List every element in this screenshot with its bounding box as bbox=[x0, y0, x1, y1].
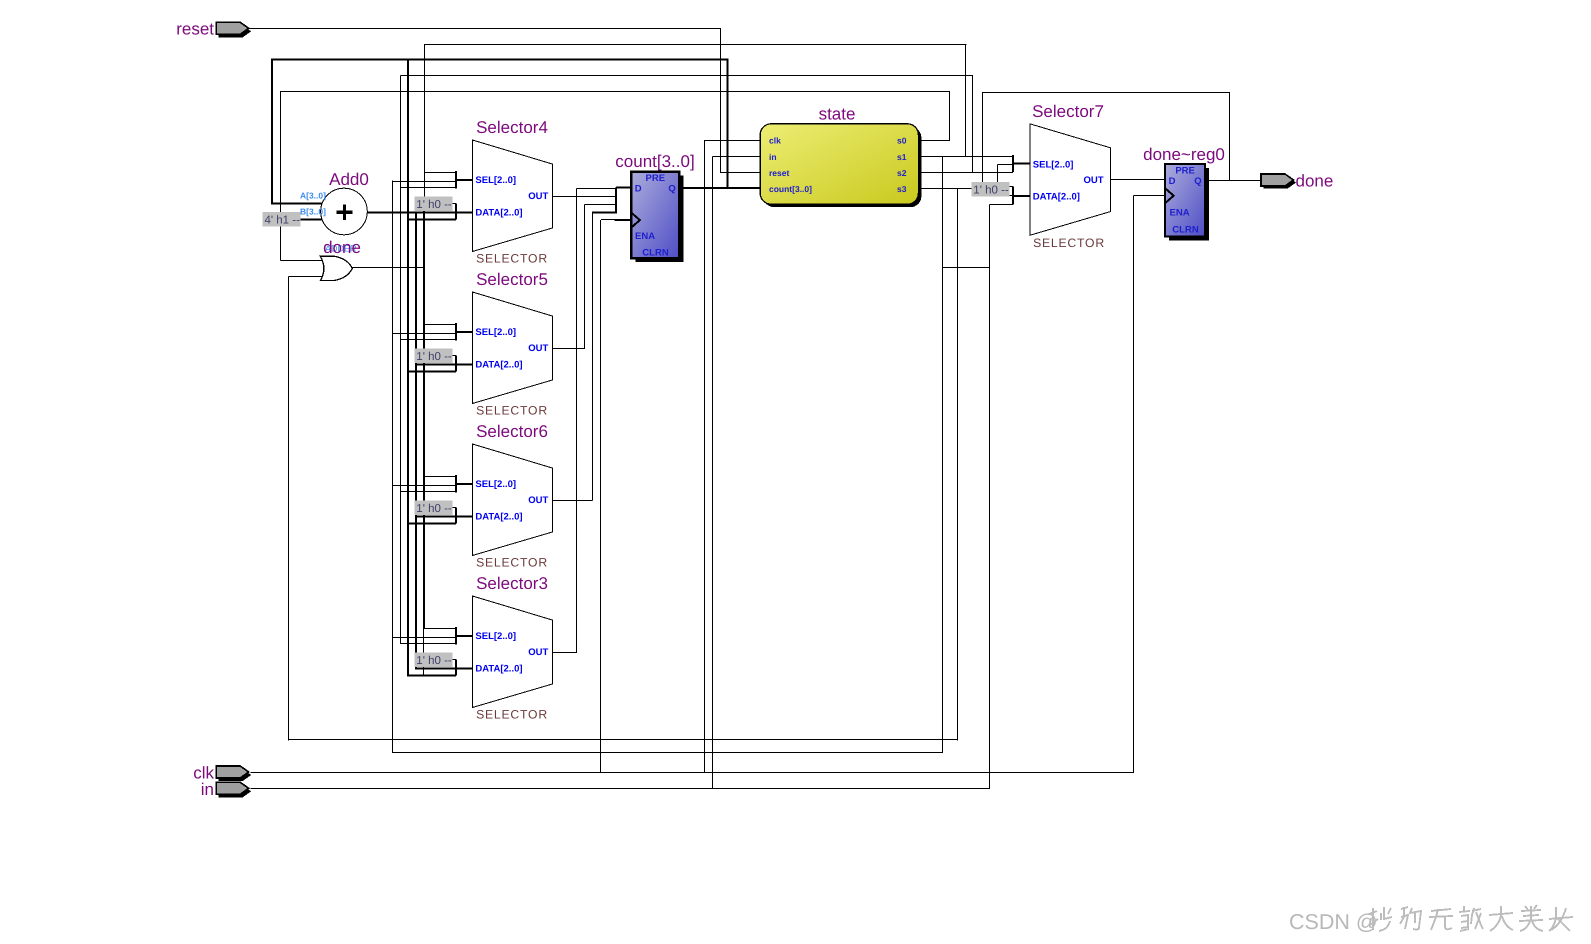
constant label 1'h0 at Selector4 DATA bbox=[414, 197, 452, 212]
svg-text:B[3..0]: B[3..0] bbox=[300, 207, 326, 217]
svg-text:SELECTOR: SELECTOR bbox=[476, 556, 548, 570]
constant label 1'h0 at Selector5 DATA bbox=[414, 349, 452, 364]
wire selector selA bit y628 bbox=[424, 628, 456, 630]
svg-text:1' h0 --: 1' h0 -- bbox=[973, 185, 1009, 197]
svg-text:SELECTOR: SELECTOR bbox=[1033, 236, 1105, 250]
wire selector SEL bundle (base 140): stub x456.1, sel pin wire bbox=[456, 171, 472, 189]
flip-flop count[3..0] bbox=[615, 152, 694, 262]
wire selector data-bottom bit y219.3 (thick) bbox=[408, 218, 456, 220]
svg-text:Selector7: Selector7 bbox=[1032, 102, 1104, 121]
wire Selector4 OUT to D bundle bbox=[552, 196, 616, 198]
wire s1 top rail y44 from x424.7 to riser x965.8 bbox=[424, 44, 966, 157]
wire s1 riser x424.7 down to Selector3 selA bbox=[424, 44, 426, 628]
wire count Q to state count input (thick) bbox=[682, 187, 761, 189]
watermark CSDN bbox=[1289, 905, 1573, 934]
constant label 1'h0 at Selector7 DATA bbox=[971, 182, 1009, 197]
mux Selector3 bbox=[472, 574, 552, 722]
wire selector selB bit y333 bbox=[392, 333, 456, 335]
wire selector data-bottom bit y675.3 (thick) bbox=[408, 674, 456, 676]
svg-text:Selector5: Selector5 bbox=[476, 270, 548, 289]
wire selector selA bit y476 bbox=[424, 476, 456, 478]
wire s0 top rail y91.5 from x280.6 to riser x949.7 bbox=[280, 92, 950, 261]
wire reset net: pin to state reset (top rail y28.5, riser x720) bbox=[250, 28, 721, 173]
mux Selector4 bbox=[472, 118, 552, 266]
adder Add0 bbox=[300, 170, 369, 254]
svg-text:CLRN: CLRN bbox=[1172, 225, 1199, 236]
wire count bus rail y59.4 (thick) x271.8..727.6 bbox=[271, 59, 729, 204]
svg-text:Q: Q bbox=[668, 184, 675, 195]
svg-text:DATA[2..0]: DATA[2..0] bbox=[475, 208, 522, 219]
svg-text:Selector3: Selector3 bbox=[476, 574, 548, 593]
svg-text:ENA: ENA bbox=[635, 231, 655, 242]
svg-text:1' h0 --: 1' h0 -- bbox=[416, 655, 452, 667]
svg-text:A[3..0]: A[3..0] bbox=[300, 191, 326, 201]
constant label 4'h1 at Add0 B input bbox=[263, 212, 301, 227]
wire Selector7 DATA bundle stub + pin wire bbox=[1013, 186, 1030, 204]
svg-text:SEL[2..0]: SEL[2..0] bbox=[475, 631, 516, 642]
svg-text:SEL[2..0]: SEL[2..0] bbox=[475, 175, 516, 186]
svg-text:done~reg0: done~reg0 bbox=[1143, 145, 1225, 164]
wire s2 riser x400.9 down to Selector3 selC bbox=[400, 76, 402, 645]
svg-text:1' h0 --: 1' h0 -- bbox=[416, 503, 452, 515]
svg-text:reset: reset bbox=[176, 20, 214, 39]
wire clk rail y772.2 from pin to x1133.4 bbox=[251, 772, 1134, 774]
wire selector data-top bit y355.4 bbox=[423, 355, 456, 357]
wire done-net vertical x423.3 (OR output distribution) bbox=[423, 203, 425, 675]
svg-text:OUT: OUT bbox=[528, 191, 548, 202]
wire OR top input from s0 bbox=[281, 260, 322, 262]
svg-text:SELECTOR: SELECTOR bbox=[476, 708, 548, 722]
svg-text:OUT: OUT bbox=[528, 343, 548, 354]
svg-text:SEL[2..0]: SEL[2..0] bbox=[1033, 159, 1074, 170]
wire count distribution x408.2 (thick) bbox=[407, 59, 409, 676]
wire Selector7 sel mid bit y164.6 bbox=[997, 164, 1013, 166]
svg-text:OUT: OUT bbox=[1083, 175, 1103, 186]
wire Add0 B input from constant 4'h1 bbox=[299, 219, 323, 221]
svg-text:CLRN: CLRN bbox=[642, 248, 669, 259]
wire s1 drop x942.2 to rail y752.4 bbox=[942, 156, 944, 753]
svg-text:DATA[2..0]: DATA[2..0] bbox=[475, 360, 522, 371]
wire OR bottom input from bottom rail x288.9 bbox=[288, 277, 321, 741]
svg-text:PRE: PRE bbox=[1175, 165, 1195, 176]
input pin in bbox=[201, 780, 251, 799]
wire in riser x712.5 to state in bbox=[713, 156, 761, 789]
wire selector selC bit y491.7 bbox=[400, 491, 456, 493]
svg-text:Q: Q bbox=[1194, 176, 1201, 187]
flip-flop done~reg0 bbox=[1143, 145, 1225, 240]
svg-text:OUT: OUT bbox=[528, 647, 548, 658]
wire in riser x989.3 to Selector7 data-bottom bbox=[989, 204, 991, 789]
wire selector data-top bit y203.4 bbox=[423, 203, 456, 205]
wire state reset input wire bbox=[720, 172, 760, 174]
wire Add0 A input (thick) from bus riser bbox=[272, 203, 323, 205]
wire selector selC bit y339.7 bbox=[400, 339, 456, 341]
wire Add0 sum distribution x415.9 (thick) bbox=[415, 211, 417, 669]
wire s0 from state to riser bbox=[918, 140, 950, 142]
svg-text:in: in bbox=[201, 780, 214, 799]
svg-text:done: done bbox=[1296, 172, 1334, 191]
svg-text:count[3..0]: count[3..0] bbox=[769, 184, 812, 194]
wire selector selA bit y172 bbox=[424, 172, 456, 174]
wire selector data-top bit y659.4 bbox=[423, 659, 456, 661]
wire Add0 OUT (thick) to Selector4 DATA bbox=[367, 211, 473, 213]
svg-text:DATA[2..0]: DATA[2..0] bbox=[475, 512, 522, 523]
svg-text:s1: s1 bbox=[897, 152, 907, 162]
wire rail y752.4 from x392.3 to x942.2 bbox=[392, 752, 943, 754]
wire jog y267.8 from x942.2 to x989.3 bbox=[942, 267, 990, 269]
wire selector selC bit y643.7 bbox=[400, 643, 456, 645]
wire s3 drop x957.2 to rail y739.9 bbox=[957, 189, 959, 741]
mux Selector7 bbox=[1030, 102, 1111, 250]
svg-text:Selector4: Selector4 bbox=[476, 118, 548, 137]
wire selector data-bottom bit y523.3 (thick) bbox=[408, 522, 456, 524]
wire selector SEL bundle (base 444): stub x456.1, sel pin wire bbox=[456, 475, 472, 493]
wire selector SEL bundle (base 596): stub x456.1, sel pin wire bbox=[456, 627, 472, 645]
wire selector selC bit y187.7 bbox=[400, 187, 456, 189]
svg-text:OUT: OUT bbox=[528, 495, 548, 506]
wire Selector6 OUT via x592.2 bbox=[552, 212, 616, 500]
svg-text:DATA[2..0]: DATA[2..0] bbox=[475, 664, 522, 675]
output pin done bbox=[1261, 172, 1333, 191]
wire selector DATA bundle (base 140): stub x456.1 bbox=[455, 203, 457, 219]
wire selector selB bit y181 bbox=[392, 181, 456, 183]
wire s2 from state to Selector7 SEL bundle bbox=[918, 172, 1013, 174]
wire selector selB bit y637 bbox=[392, 637, 456, 639]
constant label 1'h0 at Selector6 DATA bbox=[414, 501, 452, 516]
svg-text:D: D bbox=[1169, 176, 1176, 187]
wire s1 from state to Selector7 SEL bundle bbox=[918, 156, 1013, 158]
svg-text:s2: s2 bbox=[897, 168, 907, 178]
constant label 1'h0 at Selector3 DATA bbox=[414, 653, 452, 668]
wire selector selA bit y324 bbox=[424, 324, 456, 326]
svg-text:1' h0 --: 1' h0 -- bbox=[416, 199, 452, 211]
svg-text:SEL[2..0]: SEL[2..0] bbox=[475, 327, 516, 338]
wire count clock from clk rail via x600.8 bbox=[601, 220, 633, 773]
svg-text:Add0: Add0 bbox=[329, 170, 369, 189]
svg-text:DATA[2..0]: DATA[2..0] bbox=[1033, 191, 1080, 202]
wire OR output to vertical x423.2 bbox=[352, 267, 423, 269]
wire selector DATA pin wire y364.3 (thick) bbox=[416, 363, 473, 365]
wire Selector7 data-mid constant stub bbox=[1004, 195, 1013, 197]
svg-text:state: state bbox=[819, 105, 856, 124]
svg-text:ENA: ENA bbox=[1170, 208, 1190, 219]
wire selector data-bottom bit y371.3 (thick) bbox=[408, 370, 456, 372]
mux Selector6 bbox=[472, 422, 552, 570]
wire selector DATA bundle (base 292): stub x456.1 bbox=[455, 355, 457, 371]
wire selector DATA bundle (base 444): stub x456.1 bbox=[455, 507, 457, 523]
wire s3 from state to x997.4 bbox=[918, 188, 998, 190]
wire selector data-top bit y507.4 bbox=[423, 507, 456, 509]
wire Selector7 data-bottom bit y204.3 (in) bbox=[989, 204, 1013, 206]
wire s3 riser x392.3 (from bottom rail) up to Selector4 selB bbox=[392, 181, 394, 753]
wire clk riser x704.8 to state clk bbox=[705, 140, 761, 773]
svg-text:count[3..0]: count[3..0] bbox=[615, 152, 694, 171]
wire selector SEL bundle (base 292): stub x456.1, sel pin wire bbox=[456, 323, 472, 341]
wire Selector3 OUT via x576.5 bbox=[552, 188, 616, 652]
state machine box state bbox=[760, 105, 921, 208]
wire count D bundle stub + D pin wire (thick) bbox=[616, 188, 632, 214]
wire done feedback top rail y92.1 x982.4..1229.4 bbox=[982, 92, 1230, 187]
svg-text:SEL[2..0]: SEL[2..0] bbox=[475, 479, 516, 490]
wire Selector7 data-top bit y186.3 (done feedback) bbox=[982, 186, 1013, 188]
wire selector selB bit y485 bbox=[392, 485, 456, 487]
wire in rail y788.4 from pin to x989.3 bbox=[251, 788, 990, 790]
svg-text:CSDN @: CSDN @ bbox=[1289, 910, 1378, 934]
wire rail y739.9 from x288.9 to x957.2 (OR feedback) bbox=[288, 739, 957, 741]
svg-text:done: done bbox=[323, 238, 361, 257]
svg-text:Selector6: Selector6 bbox=[476, 422, 548, 441]
wire selector DATA pin wire y668.3 (thick) bbox=[416, 667, 473, 669]
wire SEL7 mid-bit riser x997.4 bbox=[997, 165, 999, 189]
input pin clk bbox=[193, 764, 251, 783]
svg-text:s3: s3 bbox=[897, 184, 907, 194]
or-gate done bbox=[320, 238, 361, 281]
wire done~reg0 clock riser x1133.4 bbox=[1133, 196, 1165, 773]
mux Selector5 bbox=[472, 270, 552, 418]
svg-text:1' h0 --: 1' h0 -- bbox=[416, 351, 452, 363]
svg-text:SELECTOR: SELECTOR bbox=[476, 252, 548, 266]
svg-text:reset: reset bbox=[769, 168, 789, 178]
input pin reset bbox=[176, 20, 251, 39]
wire done~reg0 Q to done pin bbox=[1205, 180, 1261, 182]
wire Selector5 OUT via x584.3 bbox=[552, 205, 616, 349]
svg-text:D: D bbox=[635, 184, 642, 195]
wire selector DATA pin wire y516.3 (thick) bbox=[416, 515, 473, 517]
wire Selector7 SEL bundle stub + pin wire bbox=[1013, 155, 1030, 172]
svg-text:4' h1 --: 4' h1 -- bbox=[265, 215, 301, 227]
wire s2 top rail y75.6 from x400.9 to riser x972.5 bbox=[400, 76, 973, 174]
svg-text:s0: s0 bbox=[897, 136, 907, 146]
svg-text:SELECTOR: SELECTOR bbox=[476, 404, 548, 418]
svg-text:clk: clk bbox=[769, 136, 781, 146]
svg-text:PRE: PRE bbox=[646, 173, 666, 184]
wire Selector7 OUT to done~reg0 D bbox=[1110, 179, 1165, 181]
wire selector DATA bundle (base 596): stub x456.1 bbox=[455, 659, 457, 675]
svg-text:in: in bbox=[769, 152, 777, 162]
